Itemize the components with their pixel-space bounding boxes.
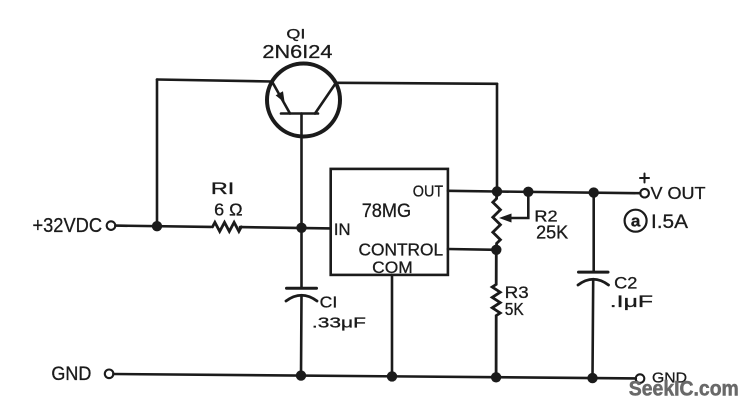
svg-text:I.5A: I.5A — [651, 212, 688, 233]
svg-text:SeekIC.com: SeekIC.com — [629, 378, 739, 401]
svg-text:5K: 5K — [505, 299, 524, 319]
label R2 — [534, 208, 557, 225]
wire +32VDC terminal to R1 — [115, 226, 211, 227]
node dot OUT junction — [492, 186, 502, 196]
wire R1 to IN node — [240, 227, 331, 228]
label GND left — [51, 364, 91, 385]
svg-text:QI: QI — [286, 25, 305, 41]
capacitor C1 — [286, 228, 317, 376]
svg-text:C2: C2 — [614, 275, 637, 293]
value .33uF — [312, 315, 366, 332]
pin CONTROL — [359, 240, 444, 260]
node dot R3 ground — [491, 372, 501, 382]
node dot IN junction — [296, 223, 306, 233]
svg-text:CONTROL: CONTROL — [359, 240, 444, 260]
wire top-right horizontal (collector run) — [336, 83, 498, 84]
svg-text:78MG: 78MG — [362, 200, 412, 222]
node dot C2 ground — [587, 373, 597, 383]
label 1.5A — [651, 212, 688, 233]
wire left vertical down to input rail — [156, 80, 159, 227]
svg-text:25K: 25K — [536, 223, 568, 243]
transistor Q1 — [267, 64, 340, 137]
watermark SeekIC.com — [629, 378, 739, 401]
node dot COM ground — [387, 371, 397, 381]
terminal VOUT — [640, 189, 649, 198]
label V OUT — [651, 183, 706, 203]
svg-text:V OUT: V OUT — [651, 183, 706, 203]
svg-text:2N6I24: 2N6I24 — [262, 41, 332, 62]
label GND right — [652, 370, 687, 387]
pin COM — [372, 258, 413, 277]
svg-text:COM: COM — [372, 258, 413, 277]
label C1 — [320, 294, 338, 311]
label C2 — [614, 275, 637, 293]
resistor R3 — [492, 250, 500, 377]
svg-text:IN: IN — [334, 220, 351, 239]
wire ground rail — [113, 374, 635, 378]
svg-text:OUT: OUT — [413, 184, 443, 201]
resistor R1 — [213, 222, 242, 231]
wire right vertical down to OUT node — [496, 84, 499, 192]
wire OUT pin to node — [448, 190, 497, 193]
pin IN — [334, 220, 351, 239]
wire CONTROL pin to R2/R3 node — [448, 248, 496, 251]
value 25K — [536, 223, 568, 243]
terminal +32VDC input — [107, 221, 116, 230]
resistor R2 (potentiometer body) — [493, 192, 501, 250]
pin OUT — [413, 184, 443, 201]
node dot left rail / input junction — [152, 221, 162, 231]
capacitor C2 — [578, 193, 609, 379]
wire output rail to VOUT terminal — [497, 192, 640, 194]
label a inside circle — [631, 212, 641, 231]
label 2N6124 — [262, 41, 332, 62]
plus sign at VOUT — [640, 174, 649, 183]
node dot wiper junction — [523, 187, 533, 197]
value 5K — [505, 299, 524, 319]
svg-text:.IμF: .IμF — [610, 293, 653, 311]
node dot C1 ground — [296, 370, 306, 380]
node dot C2 top junction — [589, 187, 599, 197]
wire R2 wiper arm — [501, 192, 529, 222]
svg-text:RI: RI — [211, 180, 234, 198]
svg-text:CI: CI — [320, 294, 338, 311]
label +32VDC — [33, 214, 103, 237]
wire COM pin down to ground rail — [391, 275, 394, 377]
svg-text:.33μF: .33μF — [312, 315, 366, 332]
label R3 — [505, 284, 529, 302]
svg-text:a: a — [631, 212, 641, 231]
value 6 ohm — [214, 199, 243, 219]
svg-text:GND: GND — [51, 364, 91, 385]
label R1 — [211, 180, 234, 198]
value .1uF — [610, 293, 653, 311]
svg-text:+32VDC: +32VDC — [33, 214, 103, 237]
wire Q1 base lead down to IN node — [300, 114, 303, 228]
svg-text:6 Ω: 6 Ω — [214, 199, 243, 219]
terminal GND right — [636, 374, 645, 383]
label Q1 — [286, 25, 305, 41]
circled-a current rating symbol — [625, 210, 647, 232]
op-amp U1 regulator 78MG box — [331, 169, 448, 275]
label 78MG — [362, 200, 412, 222]
node dot CONTROL junction — [491, 245, 501, 255]
wire top-left horizontal (emitter to left rail) — [157, 80, 272, 82]
terminal GND left — [105, 370, 114, 379]
